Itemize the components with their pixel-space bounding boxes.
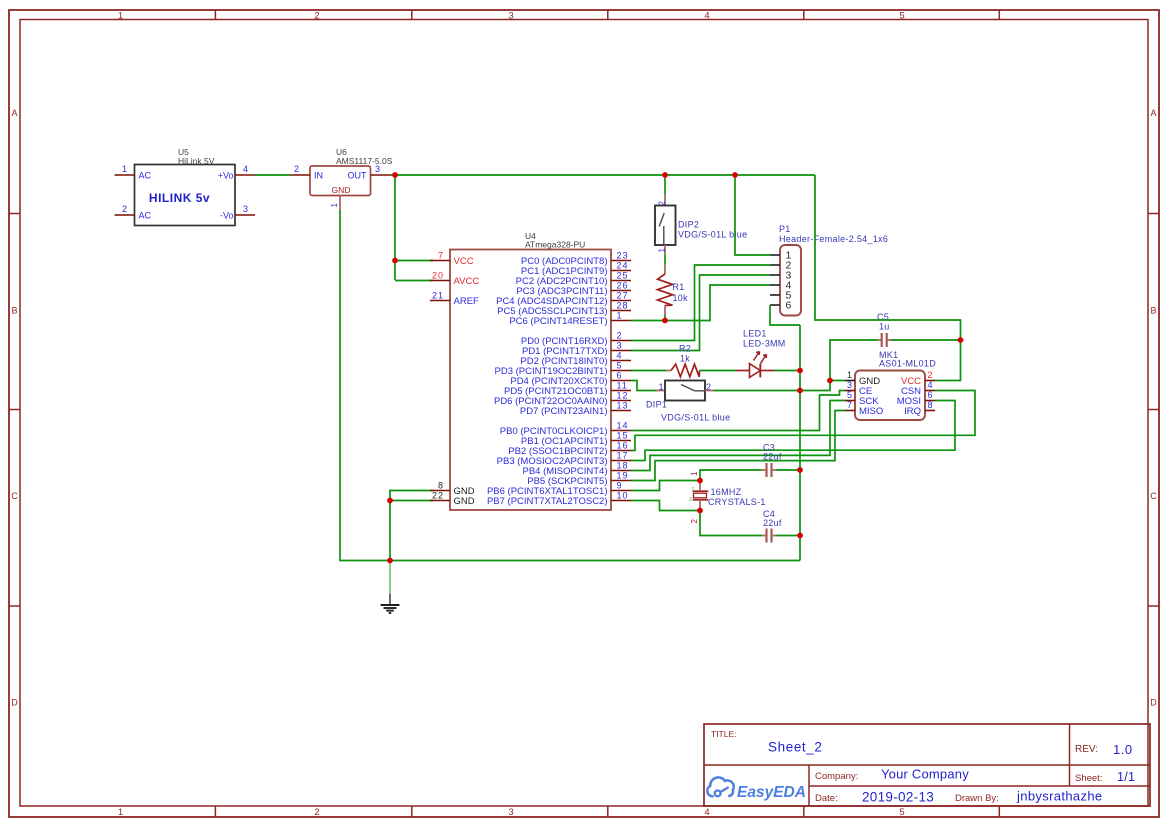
svg-text:20: 20	[432, 271, 444, 281]
svg-text:HiLink 5V: HiLink 5V	[178, 156, 215, 166]
switch DIP1 VDG/S-01L blue	[646, 381, 730, 423]
wire crystal pin1 to C3	[700, 470, 762, 481]
MK1 pin 4 CSN	[901, 380, 935, 397]
svg-text:Your Company: Your Company	[881, 767, 969, 782]
svg-text:OUT: OUT	[348, 171, 368, 181]
U4 pin 24 PC1	[521, 261, 631, 277]
RF module MK1 AS01-ML01D	[855, 350, 936, 420]
svg-text:16MHZ: 16MHZ	[711, 487, 742, 497]
svg-text:6: 6	[786, 300, 792, 312]
U4 pin 11 PD5	[504, 381, 631, 397]
node U4 GND pins join	[387, 498, 393, 504]
node DIP2 tap	[662, 172, 668, 178]
wire U4 PD1 to P1 pin3	[631, 275, 770, 351]
node +5V at U6 OUT	[392, 172, 398, 178]
node crystal pin 2	[697, 508, 703, 514]
MK1 pin 3 CE	[845, 380, 872, 397]
svg-text:1: 1	[122, 164, 128, 174]
svg-text:10k: 10k	[673, 293, 689, 303]
wire U4 PB4 to MK1 SCK	[631, 401, 845, 471]
svg-text:1: 1	[847, 370, 852, 380]
wire U4 PB0 to MK1 CE	[631, 391, 845, 431]
node C3 GND	[797, 467, 803, 473]
microcontroller U4 ATmega328-PU	[450, 231, 611, 510]
wire U4 PC6 reset to R1 and P1 pin4	[631, 285, 770, 321]
svg-text:2: 2	[122, 204, 128, 214]
svg-text:5: 5	[899, 807, 904, 818]
wire U4 GND branch vertical	[389, 501, 391, 561]
switch DIP2 VDG/S-01L blue	[655, 195, 747, 255]
wire R2 to LED1	[700, 370, 737, 372]
EasyEDA logo	[707, 777, 806, 801]
svg-text:GND: GND	[332, 185, 351, 195]
svg-text:5: 5	[617, 361, 623, 371]
svg-text:22: 22	[432, 491, 444, 501]
svg-text:IN: IN	[314, 171, 323, 181]
U4 pin 25 PC2	[516, 271, 631, 287]
U4 pin 13 PD7	[520, 401, 631, 417]
node crystal pin 1	[697, 478, 703, 484]
svg-text:1.0: 1.0	[1113, 742, 1133, 757]
wire U4 PB5 to MK1 MISO	[631, 411, 845, 481]
node MK1 GND / C5	[827, 378, 833, 384]
svg-text:TITLE:: TITLE:	[711, 729, 737, 739]
U4 pin 5 PD3	[495, 361, 631, 377]
svg-text:6: 6	[617, 371, 623, 381]
svg-text:3: 3	[243, 204, 249, 214]
U6 pin 2 IN	[290, 164, 310, 175]
svg-text:1: 1	[659, 382, 664, 392]
svg-text:HILINK 5v: HILINK 5v	[149, 191, 210, 205]
svg-text:B: B	[1150, 306, 1156, 316]
svg-text:jnbysrathazhe: jnbysrathazhe	[1016, 789, 1103, 804]
wire crystal pin2 to C4	[700, 511, 762, 536]
svg-text:4: 4	[243, 164, 249, 174]
U5 pin 1	[115, 164, 135, 175]
svg-text:14: 14	[617, 421, 629, 431]
svg-text:AREF: AREF	[454, 296, 480, 307]
wire U4 PB2 to MK1 CSN	[631, 391, 975, 451]
U4 pin 1 PC6	[509, 311, 631, 327]
U4 pin 17 PB3	[497, 451, 631, 467]
svg-text:PC6 (PCINT14RESET): PC6 (PCINT14RESET)	[509, 316, 607, 327]
wire +5V rail to P1 pin 1	[735, 175, 770, 255]
svg-text:AC: AC	[139, 171, 152, 181]
node VCC branch	[392, 258, 398, 264]
svg-text:C: C	[1150, 491, 1157, 501]
U4 pin 6 PD4	[510, 371, 631, 387]
capacitor C4 22uf	[762, 509, 782, 543]
svg-text:5: 5	[899, 10, 904, 21]
U4 pin 3 PD1	[522, 341, 631, 357]
svg-text:1/1: 1/1	[1117, 770, 1135, 784]
svg-text:6: 6	[928, 390, 933, 400]
svg-text:+Vo: +Vo	[218, 171, 234, 181]
svg-text:PB7 (PCINT7XTAL2TOSC2): PB7 (PCINT7XTAL2TOSC2)	[487, 496, 608, 507]
svg-text:7: 7	[847, 400, 852, 410]
svg-text:5: 5	[847, 390, 852, 400]
wire +5V rail to DIP2	[664, 175, 666, 195]
power module U5 HiLink 5V	[135, 147, 236, 226]
svg-text:8: 8	[438, 481, 444, 491]
svg-text:16: 16	[617, 441, 629, 451]
capacitor C5 1u	[877, 312, 891, 347]
svg-text:VDG/S-01L blue: VDG/S-01L blue	[678, 230, 747, 240]
svg-text:2: 2	[294, 164, 300, 174]
svg-text:DIP2: DIP2	[678, 220, 699, 230]
svg-text:A: A	[1150, 108, 1156, 118]
title block	[704, 724, 1150, 806]
MK1 pin 1 GND	[845, 370, 880, 387]
svg-text:19: 19	[617, 471, 629, 481]
wire to U4 GND pin 22	[390, 500, 433, 502]
svg-text:C: C	[11, 491, 18, 501]
U4 pin 18 PB4	[523, 461, 632, 477]
svg-text:1: 1	[690, 471, 699, 476]
wire +5V branch to MK1 VCC	[815, 175, 961, 381]
svg-text:3: 3	[375, 164, 381, 174]
svg-text:23: 23	[617, 251, 629, 261]
U6 pin 3 OUT	[371, 164, 391, 175]
wire U4 PD0 to P1 pin2	[631, 265, 770, 341]
wire U4 PD4 to DIP1	[631, 381, 657, 391]
svg-text:22uf: 22uf	[763, 518, 782, 528]
U4 pin 27 PC4	[496, 291, 631, 307]
MK1 pin 6 MOSI	[897, 390, 935, 407]
MK1 pin 5 SCK	[845, 390, 879, 407]
wire R1 to reset net	[664, 315, 666, 321]
U4 pin 28 PC5	[497, 301, 631, 317]
wire to U4 GND pin 8	[390, 491, 433, 501]
svg-text:2: 2	[706, 382, 711, 392]
wire to U4 VCC pin	[395, 260, 433, 262]
resistor R1 10k	[658, 265, 689, 316]
svg-text:1: 1	[330, 203, 339, 208]
node C5 +5V	[958, 337, 964, 343]
svg-text:10: 10	[617, 491, 629, 501]
U4 pin 22 GND	[430, 491, 475, 507]
MK1 pin 7 MISO	[845, 400, 883, 417]
svg-text:AS01-ML01D: AS01-ML01D	[879, 359, 936, 369]
svg-text:2: 2	[658, 201, 667, 206]
U4 pin 7 VCC	[430, 251, 474, 267]
svg-text:13: 13	[617, 401, 629, 411]
svg-text:Date:: Date:	[815, 793, 838, 804]
U6 pin 1 GND	[330, 196, 340, 211]
wire U4 PB6 to crystal pin 1	[631, 481, 700, 491]
U4 pin 15 PB1	[521, 431, 631, 447]
svg-text:3: 3	[847, 380, 852, 390]
U4 pin 2 PD0	[521, 331, 631, 347]
svg-text:Drawn By:: Drawn By:	[955, 793, 999, 804]
U4 pin 8 GND	[430, 481, 475, 497]
svg-text:EasyEDA: EasyEDA	[737, 784, 806, 801]
svg-text:1: 1	[118, 807, 123, 818]
svg-text:2019-02-13: 2019-02-13	[862, 790, 934, 805]
node C4 GND	[797, 533, 803, 539]
svg-text:PD7 (PCINT23AIN1): PD7 (PCINT23AIN1)	[520, 406, 608, 417]
U4 pin 14 PB0	[500, 421, 631, 437]
wire DIP1 to GND bus and MK1 GND	[714, 381, 846, 391]
svg-text:28: 28	[617, 301, 629, 311]
svg-text:A: A	[11, 108, 17, 118]
svg-text:ATmega328-PU: ATmega328-PU	[525, 240, 585, 250]
U4 pin 20 AVCC	[430, 271, 479, 287]
U4 pin 21 AREF	[430, 291, 479, 307]
svg-text:MISO: MISO	[859, 406, 883, 417]
svg-text:Sheet:: Sheet:	[1075, 773, 1102, 784]
U4 pin 26 PC3	[516, 281, 631, 297]
svg-text:B: B	[11, 306, 17, 316]
svg-text:2: 2	[928, 370, 933, 380]
svg-text:4: 4	[704, 10, 709, 21]
MK1 pin 2 VCC	[901, 370, 935, 387]
U4 pin 23 PC0	[521, 251, 631, 267]
svg-text:2: 2	[690, 519, 699, 524]
svg-text:IRQ: IRQ	[904, 406, 921, 417]
resistor R2 1k	[667, 344, 700, 377]
U4 pin 10 PB7	[487, 491, 631, 507]
svg-text:D: D	[11, 698, 18, 708]
LED LED1 LED-3MM	[736, 329, 786, 378]
U4 pin 9 PB6	[487, 481, 631, 497]
svg-text:Header-Female-2.54_1x6: Header-Female-2.54_1x6	[779, 234, 888, 244]
wire to U4 AVCC pin	[395, 280, 433, 282]
wire C5 right to +5V branch	[891, 339, 961, 341]
wire C4 to GND bus	[776, 535, 800, 537]
svg-text:12: 12	[617, 391, 629, 401]
connector P1 Header-Female-2.54_1x6	[770, 224, 888, 316]
node reset/R1	[662, 318, 668, 324]
MK1 pin 8 IRQ	[904, 400, 935, 417]
svg-text:R1: R1	[673, 282, 685, 292]
svg-text:22uf: 22uf	[763, 452, 782, 462]
wire U4 PD3 to R2	[631, 370, 667, 372]
svg-text:24: 24	[617, 261, 629, 271]
svg-text:1k: 1k	[680, 354, 690, 364]
svg-text:15: 15	[617, 431, 629, 441]
svg-text:27: 27	[617, 291, 629, 301]
svg-text:18: 18	[617, 461, 629, 471]
svg-text:P1: P1	[779, 224, 791, 234]
svg-text:3: 3	[508, 10, 513, 21]
wire C5 left to MK1 GND node	[830, 340, 878, 381]
svg-text:2: 2	[617, 331, 623, 341]
wire U4 PB3 to MK1 MOSI	[631, 401, 955, 461]
svg-text:25: 25	[617, 271, 629, 281]
svg-text:9: 9	[617, 481, 623, 491]
svg-text:AMS1117-5.0S: AMS1117-5.0S	[336, 156, 393, 166]
U5 pin 2	[115, 204, 135, 215]
wire +5V down to U4 VCC	[394, 175, 396, 280]
svg-text:-Vo: -Vo	[220, 211, 234, 221]
svg-text:REV:: REV:	[1075, 744, 1098, 755]
capacitor C3 22uf	[762, 443, 782, 478]
U4 pin 19 PB5	[527, 471, 631, 487]
node DIP1 GND bus	[797, 388, 803, 394]
svg-text:CRYSTALS-1: CRYSTALS-1	[708, 497, 766, 507]
wire U5 +Vo to U6 IN	[255, 174, 290, 176]
svg-text:1: 1	[658, 248, 667, 253]
svg-text:1: 1	[617, 311, 623, 321]
ground symbol	[381, 561, 400, 614]
node LED cathode	[797, 368, 803, 374]
svg-text:1u: 1u	[879, 322, 890, 332]
svg-text:AVCC: AVCC	[454, 276, 480, 287]
svg-text:LED1: LED1	[743, 329, 767, 339]
regulator U6 AMS1117-5.0S	[310, 147, 393, 196]
wire U6 OUT to +5V rail	[391, 174, 816, 176]
wire DIP2 to R1	[664, 255, 666, 265]
U4 pin 4 PD2	[520, 351, 631, 367]
crystal 16MHZ CRYSTALS-1	[689, 471, 766, 524]
svg-text:3: 3	[508, 807, 513, 818]
svg-text:26: 26	[617, 281, 629, 291]
svg-text:4: 4	[704, 807, 709, 818]
U4 pin 12 PD6	[494, 391, 631, 407]
U5 pin 4	[235, 164, 255, 175]
svg-text:DIP1: DIP1	[646, 400, 667, 410]
svg-text:21: 21	[432, 291, 444, 301]
node GND rail at U4 branch	[387, 558, 393, 564]
svg-text:2: 2	[314, 807, 319, 818]
svg-text:GND: GND	[454, 496, 475, 507]
wire C3 to GND bus	[776, 469, 800, 471]
node P1 tap	[732, 172, 738, 178]
wire P1 pin6 to GND bus	[770, 305, 800, 325]
svg-text:VCC: VCC	[454, 256, 474, 267]
svg-text:4: 4	[928, 380, 933, 390]
wire GND bus vertical	[799, 325, 801, 561]
svg-text:11: 11	[617, 381, 628, 391]
wire LED1 to GND bus	[774, 370, 800, 372]
svg-text:17: 17	[617, 451, 629, 461]
svg-text:1: 1	[692, 487, 695, 493]
svg-text:1: 1	[118, 10, 123, 21]
svg-text:Company:: Company:	[815, 771, 858, 782]
svg-text:LED-3MM: LED-3MM	[743, 339, 786, 349]
svg-text:R2: R2	[679, 344, 691, 354]
U5 pin 3	[235, 204, 255, 215]
svg-text:2: 2	[314, 10, 319, 21]
svg-text:8: 8	[928, 400, 933, 410]
U4 pin 16 PB2	[508, 441, 631, 457]
svg-text:Sheet_2: Sheet_2	[768, 740, 823, 755]
svg-text:D: D	[1150, 698, 1157, 708]
wire U6 GND down	[340, 210, 800, 561]
svg-text:AC: AC	[139, 211, 152, 221]
wire U4 PB7 to crystal pin 2	[631, 501, 700, 511]
svg-text:4: 4	[617, 351, 623, 361]
svg-text:7: 7	[438, 251, 444, 261]
svg-text:3: 3	[617, 341, 623, 351]
svg-text:VDG/S-01L blue: VDG/S-01L blue	[661, 413, 730, 423]
svg-text:2: 2	[689, 497, 692, 503]
